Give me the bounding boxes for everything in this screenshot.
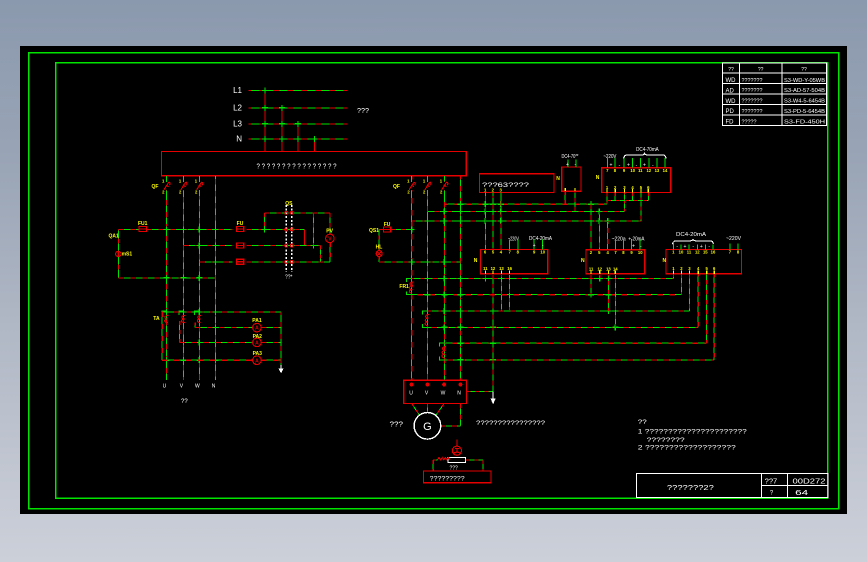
wire lamp branch top — [379, 228, 383, 230]
wire ammeter row 1b — [261, 327, 281, 329]
junctions long runs — [424, 276, 618, 363]
wire row 262 — [199, 261, 232, 263]
box3 bottom terminals — [672, 266, 716, 274]
terminal letters — [409, 391, 461, 397]
wire meter bus top — [162, 311, 281, 313]
fuse FU3 — [236, 243, 243, 248]
wire boxA cross row — [607, 200, 648, 202]
wire bus L1 — [249, 90, 348, 92]
lamp HL — [376, 251, 382, 257]
svg-text:A: A — [255, 326, 259, 332]
svg-text:DC4-70**: DC4-70** — [562, 154, 579, 160]
svg-text:A: A — [255, 341, 259, 347]
fuse FU5 — [383, 222, 390, 232]
wire generator vertical w4 — [459, 176, 461, 380]
svg-text:10: 10 — [540, 250, 545, 255]
wire drop L1 — [264, 91, 266, 152]
svg-text:??: ?? — [728, 67, 734, 73]
wire bell drop left — [432, 460, 434, 471]
svg-text:+: + — [643, 162, 646, 168]
thermal relay FR3 — [439, 343, 446, 360]
wire box2 tap3 — [607, 275, 609, 311]
junctions row262 gen — [409, 226, 448, 265]
brace boxA — [623, 153, 666, 159]
wire row 262 gen — [379, 261, 460, 263]
mini box bottom terminals — [565, 188, 575, 191]
svg-text:??7: ??7 — [765, 478, 778, 485]
svg-text:N: N — [556, 176, 560, 182]
svg-text:??: ?? — [638, 420, 648, 426]
wire row 245 right — [246, 245, 320, 247]
svg-text:15: 15 — [703, 250, 708, 255]
thermal relay FR2 — [422, 311, 429, 327]
svg-text:QS1: QS1 — [369, 228, 379, 234]
svg-text:14: 14 — [613, 266, 618, 271]
svg-text:mS1: mS1 — [122, 252, 133, 258]
bell contact — [448, 457, 465, 462]
svg-text:14: 14 — [663, 168, 668, 173]
svg-text:QS: QS — [285, 201, 293, 207]
svg-text:+: + — [533, 243, 536, 249]
wire feeder vertical v4 — [215, 176, 217, 380]
wire run 359 — [444, 359, 714, 361]
thermal relay FR1 — [407, 279, 414, 295]
current transformer CT1 — [162, 311, 168, 323]
outer border frame — [29, 53, 839, 509]
wire drop L3 — [297, 124, 299, 152]
wire transducer drop1 — [484, 196, 486, 249]
wire ammeter row 1 — [195, 327, 252, 329]
breaker QF1 pole 3 — [195, 176, 203, 196]
mini box top terminals — [566, 160, 577, 169]
svg-text:?????: ????? — [742, 119, 757, 125]
svg-text:FD: FD — [726, 120, 735, 126]
svg-text:+: + — [610, 162, 613, 168]
black drawing canvas — [20, 46, 847, 514]
svg-text:PA2: PA2 — [253, 334, 263, 340]
svg-text:PA3: PA3 — [253, 351, 263, 357]
breaker QF2 pole 2 — [423, 176, 431, 196]
wire boxA w3 — [623, 193, 625, 212]
wire meter bus right — [280, 312, 282, 365]
wire link PV top — [329, 213, 331, 234]
meter PV1 — [326, 229, 335, 243]
transducer bottom terminals — [484, 187, 503, 196]
alarm box — [424, 471, 492, 483]
svg-text:L1: L1 — [233, 86, 242, 95]
instrument box 2 — [586, 250, 645, 274]
fuse FU2 — [236, 221, 243, 231]
wire motor earth link — [467, 390, 494, 392]
svg-text:16: 16 — [711, 250, 716, 255]
wire row 245 — [183, 245, 232, 247]
meter PA2 — [253, 334, 263, 347]
svg-text:N: N — [236, 135, 242, 144]
instrument box A — [602, 168, 671, 193]
wire box1 tap4 — [509, 275, 511, 311]
wire link 264 — [264, 213, 266, 230]
svg-text:+: + — [566, 162, 569, 168]
svg-text:13: 13 — [499, 266, 504, 271]
earth arrow center — [491, 391, 496, 404]
junctions bottom tie — [164, 275, 203, 281]
wire link 313 — [313, 213, 315, 246]
svg-text:11: 11 — [638, 168, 643, 173]
svg-text:S3-FD-450H: S3-FD-450H — [784, 119, 826, 125]
wire transducer drop2 — [492, 196, 494, 249]
wire ammeter row 3b — [261, 359, 281, 361]
wire generator vertical w2 — [426, 176, 428, 380]
wire QA branch top — [118, 228, 139, 230]
instrument box 1 — [480, 249, 547, 273]
wire link 304 — [304, 229, 306, 245]
wire box3 tap4 — [697, 274, 699, 328]
svg-text:???: ??? — [357, 108, 369, 115]
wire bell drop right — [482, 460, 484, 471]
meter PA3 — [253, 351, 263, 365]
svg-text:??: ?? — [181, 399, 188, 405]
wire bell stub — [456, 439, 458, 445]
svg-text:? ? ? ? ? ? ? ? ? ? ? ? ? ? ?: ? ? ? ? ? ? ? ? ? ? ? ? ? ? ? ? — [257, 164, 337, 171]
svg-text:????????????????: ???????????????? — [476, 421, 546, 427]
boxA top terminals — [606, 158, 668, 173]
wire box2 feed1 — [590, 204, 592, 250]
wire ctrl row 204 — [444, 203, 607, 205]
wire box2 tap4 — [614, 275, 616, 327]
instrument box 3 — [666, 249, 741, 273]
busbar box — [162, 152, 467, 176]
svg-text:WD: WD — [726, 99, 737, 105]
wire bell wire right — [466, 459, 483, 461]
current transformer CT3 — [195, 311, 201, 323]
breaker QF2 pole 3 — [440, 176, 448, 196]
svg-text:N: N — [663, 258, 667, 264]
junctions ctrl rows — [424, 198, 644, 225]
svg-text:PV: PV — [326, 229, 333, 235]
wire transducer drop3 — [500, 196, 502, 249]
svg-text:FR1: FR1 — [399, 284, 409, 290]
svg-text:12: 12 — [491, 266, 496, 271]
svg-text:???????: ??????? — [742, 88, 763, 94]
box2 bottom terminals — [589, 266, 618, 273]
svg-text:13: 13 — [606, 266, 611, 271]
svg-text:+-20mA: +-20mA — [628, 237, 645, 243]
svg-text:DC4-70mA: DC4-70mA — [636, 147, 659, 153]
svg-text:12: 12 — [597, 266, 602, 271]
wire ct2 tap — [179, 321, 181, 342]
svg-text:???????2?: ???????2? — [667, 485, 714, 492]
boxA bottom terminals — [606, 185, 650, 193]
wire bus L3 — [249, 123, 348, 125]
wire row 229 right — [246, 228, 304, 230]
wire lamp to row — [378, 257, 380, 262]
svg-text:QF: QF — [393, 184, 400, 190]
junctions on supply lines — [262, 88, 318, 143]
box1 top terminals — [484, 239, 546, 254]
svg-text:10: 10 — [638, 250, 643, 255]
svg-text:12: 12 — [695, 250, 700, 255]
svg-text:11: 11 — [483, 266, 488, 271]
wire run 343 — [444, 342, 706, 344]
svg-text:11: 11 — [687, 250, 692, 255]
svg-text:G: G — [423, 421, 432, 433]
svg-text:???????: ??????? — [742, 109, 763, 115]
box1 bottom terminals — [483, 266, 512, 274]
wire mini drop1 — [564, 191, 566, 204]
wire box2 feed2 — [598, 212, 600, 250]
wire box3 tap6 — [713, 274, 715, 360]
wire box3 tap1 — [672, 274, 674, 279]
wire run 327 — [427, 326, 698, 328]
wire ammeter row 2 — [180, 341, 253, 343]
wire ammeter row 2b — [261, 341, 281, 343]
fuse FU4 — [236, 259, 243, 264]
svg-text:FU1: FU1 — [138, 221, 148, 227]
wire earth drop — [492, 295, 494, 392]
wire boxA w6 — [647, 193, 649, 201]
wire box2 tap1 — [590, 275, 592, 295]
wire boxA w1 — [606, 193, 608, 205]
svg-text:?????????: ????????? — [430, 476, 466, 482]
junctions control rows — [164, 226, 317, 265]
svg-text:N: N — [581, 258, 585, 264]
svg-text:S3-W4-5-6454B: S3-W4-5-6454B — [784, 99, 826, 105]
wire box3 tap2 — [680, 274, 682, 295]
svg-text:N: N — [474, 258, 478, 264]
svg-text:S3-AD-57-504B: S3-AD-57-504B — [784, 88, 826, 94]
wire link 320 — [320, 246, 322, 262]
wire link PV bottom — [329, 243, 331, 262]
wire G lead 1 — [412, 404, 420, 415]
wire feeder vertical v2 — [182, 176, 184, 380]
wire boxA w2 — [614, 193, 616, 201]
fuse FU1 — [138, 221, 148, 231]
wire bus N — [249, 138, 348, 140]
earth arrow left — [279, 365, 284, 373]
wire boxA w5 — [640, 193, 642, 222]
wire row 212 — [265, 212, 330, 214]
svg-text:QF: QF — [152, 184, 159, 190]
current transformer CT2 — [179, 311, 185, 323]
terminal dots — [410, 383, 463, 387]
wire generator vertical w1 — [411, 176, 413, 380]
wire G neutral v — [459, 404, 461, 426]
svg-text:DC4-20mA: DC4-20mA — [676, 232, 707, 238]
transducer box — [479, 174, 554, 193]
svg-text:PA1: PA1 — [252, 318, 262, 324]
wire row 262 right — [246, 261, 330, 263]
wire feeder vertical v1 — [166, 176, 168, 380]
wire box1 tap1 — [484, 275, 486, 279]
svg-text:10: 10 — [679, 250, 684, 255]
wire box3 tap5 — [706, 274, 708, 343]
svg-text:PD: PD — [726, 109, 735, 115]
svg-text:???????: ??????? — [742, 78, 763, 84]
svg-text:16: 16 — [507, 266, 512, 271]
wire bell wire left — [433, 459, 437, 461]
wire ct3 tap — [194, 323, 196, 328]
svg-text:+: + — [627, 162, 630, 168]
wire QA branch vertical — [117, 229, 119, 277]
svg-text:HL: HL — [376, 245, 383, 251]
svg-text:U: U — [163, 384, 167, 390]
svg-text:L2: L2 — [233, 103, 242, 112]
wire mini drop2 — [574, 191, 576, 211]
wire run 311 — [427, 310, 689, 312]
wire feeder vertical v3 — [198, 176, 200, 380]
wire G lead 3 — [436, 404, 444, 415]
meter PA1 — [252, 318, 262, 332]
svg-text:S3-PD-5-6454B: S3-PD-5-6454B — [784, 109, 826, 115]
svg-text:A: A — [255, 358, 259, 364]
wire bus L2 — [249, 107, 348, 109]
svg-text:12: 12 — [646, 168, 651, 173]
svg-text:??: ?? — [758, 67, 764, 73]
box3 top terminals — [672, 241, 740, 255]
svg-text:????????: ???????? — [647, 438, 686, 444]
svg-text:+: + — [632, 243, 635, 249]
wire G neutral h — [441, 425, 461, 427]
wire drop N — [314, 139, 316, 152]
wire box1 tap2 — [492, 275, 494, 295]
alarm bell — [452, 446, 461, 455]
svg-text:???63????: ???63???? — [482, 183, 530, 189]
wire box3 tap3 — [688, 274, 690, 311]
svg-text:W: W — [195, 384, 200, 390]
svg-text:N: N — [212, 384, 216, 390]
revision table text — [726, 67, 826, 126]
svg-text:S3-WD-Y-05WB: S3-WD-Y-05WB — [784, 78, 826, 84]
svg-text:??: ?? — [801, 67, 807, 73]
wire box2 feed3 — [607, 221, 609, 250]
wire lamp vertical — [378, 229, 380, 250]
svg-text:11: 11 — [589, 266, 594, 271]
breaker QF1 pole 1 — [162, 176, 170, 196]
svg-text:2 ???????????????????: 2 ??????????????????? — [638, 445, 737, 451]
box2 top terminals — [590, 239, 643, 255]
svg-text:FU: FU — [384, 222, 391, 228]
svg-text:W: W — [441, 391, 446, 397]
mini instrument box — [562, 167, 581, 191]
inner border frame — [56, 63, 828, 499]
svg-text:L3: L3 — [233, 119, 242, 128]
wire fuse to w1 — [391, 228, 412, 230]
svg-text:~220V: ~220V — [726, 236, 742, 242]
svg-text:10: 10 — [630, 168, 635, 173]
svg-text:N: N — [457, 391, 461, 397]
svg-text:64: 64 — [795, 490, 808, 497]
svg-text:???: ??? — [390, 421, 404, 428]
svg-text:WD: WD — [726, 78, 737, 84]
bell coil — [437, 458, 450, 460]
wire ctrl row 211 — [427, 211, 624, 213]
svg-text:DC4-20mA: DC4-20mA — [529, 236, 553, 242]
wire run 294 — [412, 294, 682, 296]
junctions meter bus — [164, 309, 219, 363]
svg-text:13: 13 — [655, 168, 660, 173]
svg-text:FU: FU — [237, 221, 244, 227]
svg-text:1 ??????????????????????: 1 ?????????????????????? — [638, 429, 748, 435]
wire G lead 2 — [426, 404, 428, 413]
svg-text:AD: AD — [726, 88, 735, 94]
plug contacts — [285, 211, 294, 263]
brace box3 — [672, 239, 713, 244]
svg-text:???: ??? — [450, 465, 459, 471]
wire meter bus left — [161, 312, 163, 360]
breaker QF2 pole 1 — [407, 176, 415, 196]
breaker QF1 pole 2 — [179, 176, 187, 196]
svg-text:00D272: 00D272 — [793, 479, 826, 486]
wire ammeter row 3 — [162, 359, 252, 361]
title block — [637, 474, 829, 498]
indicator M1 — [116, 251, 121, 256]
svg-text:U: U — [409, 391, 413, 397]
wire drop L2 — [281, 108, 283, 152]
generator G — [414, 413, 441, 440]
wire box1 tap3 — [500, 275, 502, 311]
isolating plug column — [286, 205, 292, 272]
svg-text:??*: ??* — [285, 274, 293, 280]
wire box2 tap2 — [599, 275, 601, 279]
wire generator vertical w3 — [443, 176, 445, 380]
wire bottom tie — [118, 277, 215, 279]
wire run 278 — [412, 278, 674, 280]
svg-text:QA1: QA1 — [109, 234, 120, 240]
generator terminal box — [404, 380, 467, 403]
wire boxA w4 — [632, 193, 634, 201]
wire ctrl row 221 — [412, 220, 641, 222]
svg-text:TA: TA — [153, 316, 160, 322]
revision table grid — [723, 63, 827, 125]
wire row 229 main — [146, 228, 232, 230]
svg-text:N: N — [596, 175, 600, 181]
svg-text:???????: ??????? — [742, 99, 763, 105]
